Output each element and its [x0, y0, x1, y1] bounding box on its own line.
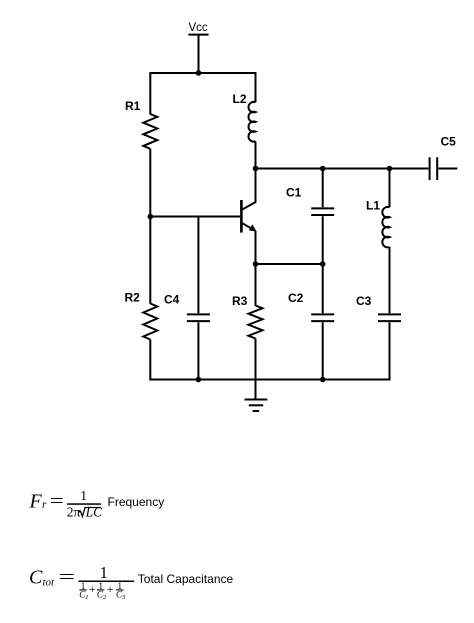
capacitor C4: [187, 314, 210, 321]
wire L2 branch top: [255, 72, 257, 102]
wire left branch lower: [149, 217, 151, 305]
transistor base bar: [240, 200, 243, 233]
wire L1 branch top: [389, 169, 391, 208]
node L1 top junction: [387, 166, 393, 172]
wire left branch bottom: [149, 340, 151, 381]
svg-text:=: =: [50, 491, 64, 512]
wire C4 branch bottom: [197, 322, 199, 380]
capacitor C3: [378, 314, 401, 321]
node C2 bottom junction: [320, 377, 326, 383]
wire R3 branch top: [255, 264, 257, 306]
wire left branch upper: [149, 72, 151, 115]
resistor R2: [143, 304, 157, 340]
wire C4 stem: [197, 217, 199, 314]
node Vcc junction: [196, 70, 202, 76]
svg-text:R3: R3: [232, 294, 248, 308]
svg-text:C: C: [29, 567, 43, 589]
svg-text:C4: C4: [164, 293, 180, 307]
svg-text:Frequency: Frequency: [108, 495, 165, 509]
svg-text:1: 1: [100, 563, 108, 582]
ground: [245, 400, 268, 412]
svg-text:=: =: [59, 567, 76, 588]
svg-text:R1: R1: [125, 99, 141, 113]
transistor emitter diagonal with arrow: [241, 223, 254, 231]
svg-text:C1: C1: [286, 186, 302, 200]
wire C2 branch bottom: [322, 322, 324, 380]
svg-text:Vcc: Vcc: [189, 22, 208, 34]
wire C1 branch bottom: [322, 216, 324, 264]
wire base: [150, 216, 241, 218]
svg-text:+: +: [89, 582, 96, 596]
transistor Q1: [150, 169, 256, 265]
transistor collector diagonal: [241, 202, 256, 210]
svg-text:Total Capacitance: Total Capacitance: [138, 572, 234, 586]
node emitter rail right junction: [320, 261, 326, 267]
svg-text:L2: L2: [233, 92, 247, 106]
svg-text:2π: 2π: [67, 505, 81, 520]
wire C3 branch bottom: [389, 322, 391, 380]
svg-text:+: +: [107, 582, 114, 596]
inductor L1: [382, 207, 389, 247]
svg-text:F: F: [29, 491, 43, 513]
capacitor C1: [311, 208, 334, 215]
svg-text:tot: tot: [43, 577, 56, 589]
wire top rail: [150, 72, 255, 74]
wire collector: [255, 169, 257, 203]
svg-text:R2: R2: [125, 291, 141, 305]
svg-text:1: 1: [80, 488, 87, 503]
wire Vcc stem: [198, 35, 200, 73]
resistor R3: [249, 306, 263, 339]
svg-text:C2: C2: [288, 291, 304, 305]
capacitor C5: [430, 157, 438, 180]
wire L1 to C3: [389, 247, 391, 313]
inductor L2: [248, 102, 255, 142]
wire L2 branch bottom: [255, 141, 257, 168]
node C1 top junction: [320, 166, 326, 172]
formula Ctot = 1/(1/C1+1/C2+1/C3): [29, 563, 234, 601]
wire bottom rail: [150, 379, 389, 381]
wire C1 branch top: [322, 169, 324, 208]
svg-text:C5: C5: [441, 135, 457, 149]
svg-text:LC: LC: [85, 505, 104, 520]
node base junction: [148, 214, 154, 220]
svg-text:C3: C3: [356, 294, 372, 308]
wire emitter rail: [256, 263, 323, 265]
wire ground stem: [255, 380, 257, 400]
formula Fr = 1/(2 pi sqrt(LC)): [29, 488, 165, 520]
capacitor C2: [311, 314, 334, 321]
wire R3 branch bottom: [255, 339, 257, 380]
wire left branch middle: [149, 149, 151, 217]
wire output stub: [438, 168, 457, 170]
node C4 bottom junction: [196, 377, 202, 383]
wire collector rail: [256, 168, 429, 170]
wire emitter: [255, 231, 257, 264]
svg-text:L1: L1: [366, 199, 380, 213]
svg-text:r: r: [42, 499, 47, 511]
Vcc terminal bar: [188, 34, 208, 36]
node emitter rail left junction: [253, 261, 259, 267]
resistor R1: [143, 114, 157, 149]
wire C2 branch top: [322, 264, 324, 313]
node collector rail junction: [253, 166, 259, 172]
